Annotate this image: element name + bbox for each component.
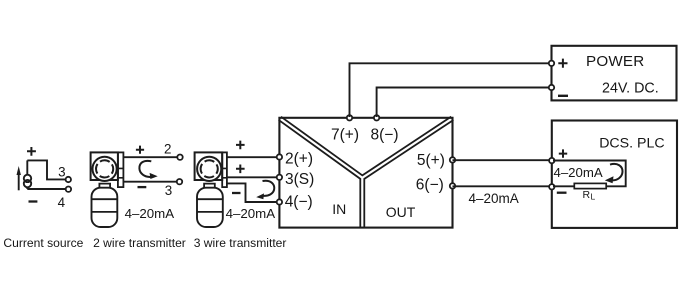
wire 6(-) to DCS - xyxy=(453,185,552,187)
load loop wire xyxy=(553,161,626,187)
terminal + xyxy=(549,158,554,163)
wire xyxy=(27,187,65,189)
transmitter head circle xyxy=(93,157,117,181)
plus label xyxy=(136,146,144,154)
svg-text:4–20mA: 4–20mA xyxy=(226,206,276,221)
isolator block U1 xyxy=(277,115,456,228)
terminal - xyxy=(549,184,554,189)
loop arrow xyxy=(256,181,274,199)
wire 7(+) to POWER + xyxy=(350,63,552,117)
svg-text:3: 3 xyxy=(165,183,172,198)
terminal 3 xyxy=(177,179,182,184)
transmitter head square xyxy=(195,152,223,180)
svg-text:4–20mA: 4–20mA xyxy=(469,191,519,206)
3 wire transmitter T2 xyxy=(195,152,276,227)
inner arc ring xyxy=(201,160,218,177)
wire + to 3(S) xyxy=(227,176,280,178)
DCS PLC box xyxy=(549,121,677,228)
terminal 5(+) xyxy=(450,157,455,162)
terminal block xyxy=(118,152,124,187)
svg-text:24V. DC.: 24V. DC. xyxy=(602,81,659,97)
svg-text:2(+): 2(+) xyxy=(285,151,313,168)
minus label xyxy=(138,186,147,188)
svg-text:3 wire transmitter: 3 wire transmitter xyxy=(194,236,287,250)
terminal 4 xyxy=(66,187,71,192)
svg-text:POWER: POWER xyxy=(586,53,644,70)
wire 5(+) to DCS + xyxy=(453,159,552,161)
svg-text:4–20mA: 4–20mA xyxy=(554,165,603,180)
neck xyxy=(204,184,215,188)
svg-text:L: L xyxy=(591,192,596,202)
svg-text:5(+): 5(+) xyxy=(417,152,445,169)
body capsule xyxy=(92,188,118,227)
wire 8(-) to POWER - xyxy=(377,88,552,118)
svg-text:2: 2 xyxy=(164,141,171,156)
resistor RL xyxy=(574,183,606,188)
svg-text:8(−): 8(−) xyxy=(371,126,399,143)
loop arrow xyxy=(139,161,157,179)
transmitter head square xyxy=(91,152,118,180)
svg-text:7(+): 7(+) xyxy=(331,126,359,143)
svg-text:Current source: Current source xyxy=(3,236,83,250)
svg-text:OUT: OUT xyxy=(386,204,416,220)
terminal 4(-) xyxy=(277,199,282,204)
svg-text:6(−): 6(−) xyxy=(416,176,444,193)
Y divider double line xyxy=(280,118,453,227)
direction arrow xyxy=(18,173,20,190)
wire xyxy=(27,160,65,179)
body capsule xyxy=(197,188,223,227)
terminal 2 xyxy=(177,155,182,160)
svg-text:3: 3 xyxy=(58,165,65,180)
wire - to 4(-) xyxy=(227,183,280,202)
neck xyxy=(99,184,110,188)
svg-text:4–20mA: 4–20mA xyxy=(125,206,175,221)
wire + to 2(+) xyxy=(227,156,280,158)
minus label xyxy=(29,200,38,202)
terminal + xyxy=(549,61,554,66)
svg-text:3(S): 3(S) xyxy=(285,171,314,188)
wire + to terminal 2 xyxy=(123,156,177,158)
wire - to terminal 3 xyxy=(123,181,176,183)
terminal 8(-) xyxy=(374,115,379,120)
inner arc ring xyxy=(96,160,113,177)
terminal 3(S) xyxy=(277,175,282,180)
svg-text:DCS. PLC: DCS. PLC xyxy=(599,136,664,152)
terminal - xyxy=(549,85,554,90)
current source CS1 xyxy=(17,147,72,210)
terminal block xyxy=(222,152,227,187)
terminal 2(+) xyxy=(277,154,282,159)
minus label xyxy=(232,192,241,194)
plus label xyxy=(236,165,245,174)
wire xyxy=(26,160,28,175)
svg-text:2 wire transmitter: 2 wire transmitter xyxy=(93,236,186,250)
terminal 6(-) xyxy=(450,183,455,188)
terminal 3 xyxy=(66,177,71,182)
plus label xyxy=(236,141,245,150)
loop arrow xyxy=(610,164,623,180)
transmitter head circle xyxy=(197,157,221,181)
terminal 7(+) xyxy=(347,115,352,120)
svg-text:4(−): 4(−) xyxy=(285,194,313,211)
2 wire transmitter T1 xyxy=(91,152,175,227)
svg-text:4: 4 xyxy=(58,195,66,210)
svg-text:IN: IN xyxy=(332,201,346,217)
block outline xyxy=(279,118,452,228)
POWER box xyxy=(549,46,677,101)
current source circles xyxy=(24,175,31,182)
svg-text:R: R xyxy=(583,189,591,201)
plus label xyxy=(27,147,36,156)
